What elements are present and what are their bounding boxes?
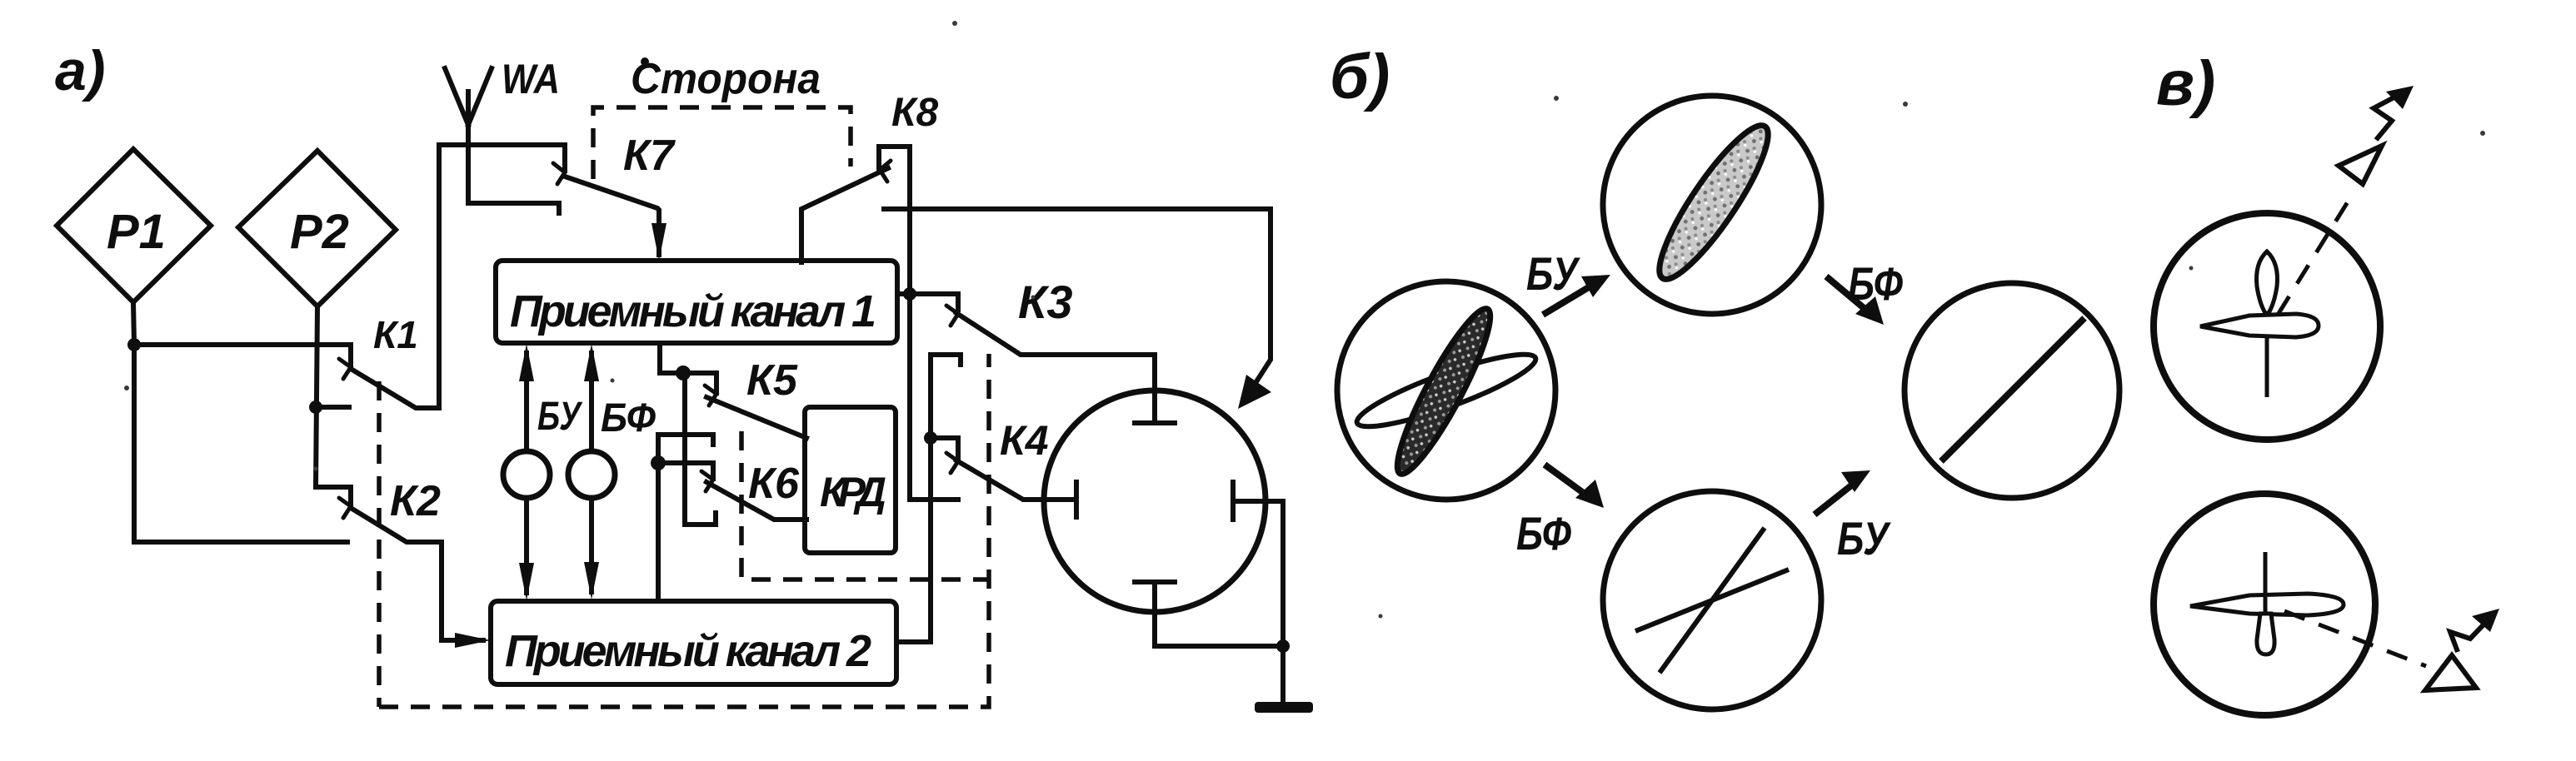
svg-text:К3: К3 [1018,276,1073,328]
svg-text:КРД: КРД [820,469,886,515]
svg-text:Сторона: Сторона [631,55,821,103]
svg-text:WA: WA [502,56,560,102]
svg-text:К2: К2 [390,477,441,525]
svg-text:БУ: БУ [537,395,583,439]
svg-text:К7: К7 [623,132,676,180]
svg-text:БФ: БФ [1516,507,1571,560]
svg-text:в): в) [2156,48,2215,119]
svg-text:К8: К8 [891,91,939,135]
svg-text:Приемный канал 1: Приемный канал 1 [510,286,876,336]
svg-text:БФ: БФ [1848,257,1903,310]
svg-text:К5: К5 [746,356,798,405]
svg-text:Приемный канал 2: Приемный канал 2 [505,626,871,676]
svg-text:БУ: БУ [1837,512,1891,565]
svg-text:б): б) [1330,42,1390,112]
svg-text:К6: К6 [748,460,800,508]
svg-text:а): а) [55,39,105,102]
svg-text:Р2: Р2 [290,205,349,259]
svg-text:БУ: БУ [1526,247,1580,300]
svg-text:К1: К1 [373,313,418,356]
svg-text:К4: К4 [1000,417,1049,464]
svg-text:Р1: Р1 [107,205,166,259]
svg-text:БФ: БФ [601,396,656,440]
